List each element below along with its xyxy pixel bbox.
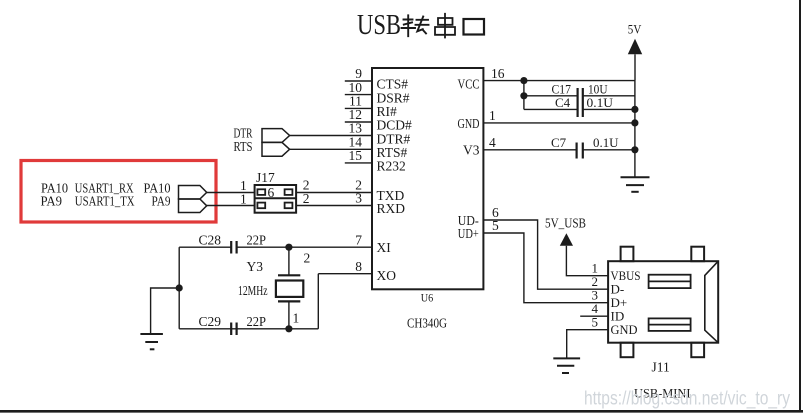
svg-text:1: 1 <box>489 108 496 123</box>
pad J17-2b <box>285 203 293 209</box>
connector DTR/RTS <box>234 126 290 157</box>
svg-text:RTS: RTS <box>234 139 253 154</box>
svg-text:XO: XO <box>377 268 397 283</box>
jumper J17 <box>240 170 309 213</box>
svg-text:PA9: PA9 <box>152 193 171 208</box>
svg-text:5V: 5V <box>628 22 642 37</box>
crystal Y3 body <box>276 281 303 297</box>
wire pin11 RI# <box>345 107 372 109</box>
svg-text:15: 15 <box>349 148 363 163</box>
wire drop to C17/C4 <box>523 81 525 110</box>
wire C29 row <box>179 328 318 330</box>
capacitor C7 plates <box>575 143 577 159</box>
wire pin14 RTS <box>290 148 372 150</box>
sheet border bottom <box>0 410 803 413</box>
svg-text:J11: J11 <box>652 360 670 375</box>
wire VCC pin16 <box>483 80 635 82</box>
U6 left pin names <box>377 77 413 283</box>
svg-text:12MHz: 12MHz <box>238 283 268 298</box>
wire stub to left ground <box>151 288 180 334</box>
J11 mounting tab bottom-right <box>691 343 704 358</box>
wire C28 row left <box>179 246 231 248</box>
hanzi zhuan 转 <box>402 15 416 36</box>
port RTS <box>262 142 290 156</box>
wire 5V_USB to VBUS <box>566 246 608 276</box>
crystal oscillator section <box>140 241 318 349</box>
ground (left) <box>140 333 163 335</box>
port DTR <box>262 129 290 143</box>
wire 5V down <box>634 54 636 80</box>
wire pin12 DCD# <box>345 121 372 123</box>
U6 left pin numbers <box>349 66 363 274</box>
svg-text:USB: USB <box>357 10 401 41</box>
J11 slot top <box>649 275 691 288</box>
svg-text:5: 5 <box>592 315 599 330</box>
svg-text:C28: C28 <box>199 233 222 248</box>
junction dot C4 right <box>631 106 638 113</box>
wire C17 right <box>583 95 635 97</box>
wire junction to crystal top <box>288 247 290 275</box>
wire UD+ pin5 to D+ <box>483 233 608 303</box>
svg-text:GND: GND <box>458 116 480 131</box>
svg-text:13: 13 <box>349 121 363 136</box>
junction dot C17 <box>520 92 527 99</box>
svg-text:USART1_TX: USART1_TX <box>75 193 135 208</box>
svg-text:10: 10 <box>349 80 363 95</box>
wire C7 right <box>583 149 635 151</box>
J11 bevel edge <box>705 261 718 343</box>
wire PA10 to J17 <box>207 192 255 194</box>
svg-text:0.1U: 0.1U <box>593 135 619 150</box>
ground (right) <box>621 176 650 178</box>
svg-text:5V_USB: 5V_USB <box>545 216 586 231</box>
svg-text:V3: V3 <box>463 143 480 158</box>
wire PA9 to J17 <box>207 205 255 207</box>
svg-text:Y3: Y3 <box>247 259 264 274</box>
svg-text:DSR#: DSR# <box>377 90 410 105</box>
svg-text:J17: J17 <box>256 170 275 185</box>
hanzi chuan 串 <box>435 14 455 38</box>
svg-text:2: 2 <box>304 251 311 266</box>
pad J17-1b <box>257 203 265 209</box>
title USB转串口 <box>357 10 484 41</box>
svg-text:C4: C4 <box>555 95 571 110</box>
svg-text:7: 7 <box>355 232 362 247</box>
wire crystal bottom to C29 row <box>288 301 290 328</box>
hanzi kou 口 <box>464 19 485 35</box>
sheet border right <box>799 0 801 412</box>
svg-text:RXD: RXD <box>377 201 406 216</box>
wire right vertical rail <box>634 81 636 178</box>
junction dot left gnd <box>176 284 183 291</box>
svg-text:U6: U6 <box>421 290 434 304</box>
svg-text:22P: 22P <box>247 314 267 329</box>
capacitor C28 plates <box>230 241 232 254</box>
svg-text:1: 1 <box>293 311 300 326</box>
J11 slot bottom <box>649 318 691 331</box>
wire C4 right <box>583 108 635 110</box>
VCC / decoupling section <box>483 81 649 192</box>
svg-text:16: 16 <box>491 66 505 81</box>
wire left vertical C28-C29 <box>178 247 180 329</box>
wire C29 row up to XO <box>317 274 319 329</box>
power symbol 5V arrow <box>628 39 642 55</box>
red highlight box <box>21 161 216 223</box>
junction dot VCC <box>520 77 527 84</box>
wire GND pin1 <box>483 122 635 124</box>
wire UD- pin6 to D- <box>483 220 608 289</box>
U6 right pin names <box>458 76 480 241</box>
junction dot C28/XI <box>285 244 292 251</box>
connector J11 USB-MINI <box>553 247 718 373</box>
svg-text:PA9: PA9 <box>41 193 63 208</box>
wire pin8 XO row <box>318 273 372 275</box>
junction dot GND rail <box>631 119 638 126</box>
svg-text:6: 6 <box>268 185 275 200</box>
power 5V <box>628 22 642 81</box>
wire C17 left <box>524 95 577 97</box>
svg-text:UD+: UD+ <box>458 226 479 241</box>
crystal Y3 top plate <box>278 274 300 276</box>
pad J17-1a <box>257 189 265 195</box>
port PA9 <box>179 199 207 213</box>
svg-text:VCC: VCC <box>458 76 480 91</box>
capacitor C29 plates <box>230 323 232 336</box>
wire GND to ground <box>567 330 608 359</box>
wire V3 pin4 <box>483 149 576 151</box>
svg-text:4: 4 <box>489 135 496 150</box>
wire pin7 XI row <box>237 246 372 248</box>
wire pin13 DTR <box>290 135 372 137</box>
J11 mounting tab top-right <box>691 247 704 262</box>
U6 right pin numbers <box>489 66 505 233</box>
capacitor C17/C4 plates <box>576 88 578 117</box>
wires: U6 left stubs <box>237 81 372 274</box>
IC U6 CH340G body <box>372 68 483 330</box>
svg-text:C29: C29 <box>199 314 222 329</box>
svg-text:0.1U: 0.1U <box>587 95 614 110</box>
svg-text:CH340G: CH340G <box>407 315 447 330</box>
svg-text:C7: C7 <box>551 135 567 150</box>
svg-text:2: 2 <box>303 191 310 206</box>
junction dot C7 right <box>631 146 638 153</box>
junction dot C29/XO <box>285 325 292 332</box>
crystal Y3 bottom plate <box>278 300 300 302</box>
power 5V_USB <box>545 216 608 276</box>
svg-text:XI: XI <box>377 240 392 255</box>
svg-text:1: 1 <box>240 191 247 206</box>
svg-text:https://blog.csdn.net/vic_to_r: https://blog.csdn.net/vic_to_ry <box>584 388 790 410</box>
wire C4 left <box>524 108 577 110</box>
wire pin15 R232 <box>345 162 372 164</box>
power symbol 5V_USB arrow <box>560 233 573 246</box>
wire pin10 DSR# <box>345 94 372 96</box>
pad J17-2a <box>285 189 293 195</box>
J11 mounting tab top-left <box>621 247 634 262</box>
svg-text:GND: GND <box>611 322 638 337</box>
UD routing <box>483 220 608 303</box>
wire pin2 TXD <box>296 192 372 194</box>
wire pin3 RXD <box>296 205 372 207</box>
port PA10 <box>179 186 207 200</box>
svg-text:R232: R232 <box>377 159 406 174</box>
J11 mounting tab bottom-left <box>621 343 634 358</box>
svg-text:8: 8 <box>355 259 362 274</box>
wire pin9 CTS# <box>345 80 372 82</box>
ground (USB) <box>553 357 580 359</box>
net labels PA10/PA9 <box>41 180 171 208</box>
J11 body <box>608 261 718 343</box>
wire ID stub <box>580 315 608 317</box>
svg-text:22P: 22P <box>247 233 267 248</box>
